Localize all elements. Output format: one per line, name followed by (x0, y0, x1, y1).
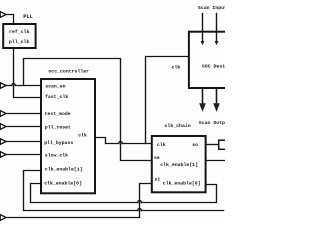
SOC Design box (cut at right edge) (189, 32, 227, 88)
arrowhead scan input 2 (215, 41, 219, 45)
wire scan_en (with hop bump over pll_clk line) (6, 85, 41, 87)
input arrow si (bottom-left) (0, 215, 6, 221)
wire clk output of occ_controller (step down, hop bump over scan branch) (96, 138, 152, 144)
wire ref_clk into PLL (6, 15, 14, 24)
wire so output (206, 144, 219, 146)
wire test_mode (6, 113, 41, 115)
wire pll_bypass (6, 141, 41, 143)
arrowhead scan input 1 (201, 41, 205, 45)
svg-text:si: si (155, 177, 161, 183)
wire Scan Output 1 (202, 89, 204, 105)
wire pll_clk (PLL bottom to fast_clk input, hops scan_en wire) (14, 49, 41, 98)
svg-text:clk: clk (78, 133, 87, 139)
input arrow pll_reset (0, 124, 6, 130)
wire clk_enable[0] from occ down, across, up to clk_chain (31, 184, 217, 203)
clk_chain box (152, 136, 206, 192)
svg-text:scan_en: scan_en (45, 85, 65, 90)
svg-text:clk_chain: clk_chain (165, 123, 191, 129)
occ_controller box (41, 79, 95, 193)
svg-text:clk_enable[1]: clk_enable[1] (45, 167, 83, 173)
input arrow slow_clk (0, 152, 6, 158)
svg-text:fast_clk: fast_clk (45, 94, 68, 100)
svg-text:pll_clk: pll_clk (9, 39, 29, 45)
hop bump on scan_en over pll_clk (12, 83, 16, 85)
wire si from bottom arrow up into clk_chain (6, 184, 152, 218)
arrowhead scan output 2 (213, 103, 220, 112)
svg-text:pll_reset: pll_reset (45, 124, 71, 130)
svg-text:clk_enable[1]: clk_enable[1] (160, 162, 198, 168)
wire scan_en branch to se (up, across top, down, into clk_chain) (24, 59, 152, 161)
input arrow test_mode (0, 111, 6, 117)
svg-text:clk: clk (157, 142, 166, 148)
input arrow pll_bypass (0, 139, 6, 145)
svg-text:clk_enable[0]: clk_enable[0] (163, 181, 201, 187)
hop bump on clk wire over scan branch vertical (119, 141, 123, 143)
input arrow ref_clk (top-left) (0, 12, 6, 18)
wire clk up to SOC Design (146, 57, 189, 144)
wire Scan Output 2 (216, 89, 218, 105)
svg-text:Scan Input: Scan Input (198, 5, 225, 11)
arrowhead scan output 1 (199, 103, 206, 112)
svg-text:slow_clk: slow_clk (45, 152, 68, 158)
wire pll_reset (6, 126, 41, 128)
scan-out flop box (cut at right edge) (219, 140, 227, 149)
wire clk_enable[1] from occ to bottom bus (24, 171, 224, 211)
hop bump on clk_enable[0] bus over si vertical (138, 200, 142, 202)
PLL box (3, 24, 35, 48)
wire Scan Input 1 (202, 14, 204, 43)
svg-text:PLL: PLL (23, 14, 33, 20)
wire Scan Input 2 (216, 14, 218, 43)
wire slow_clk (6, 154, 41, 156)
hop bump on clk_enable[1] bus over si vertical (138, 208, 142, 210)
svg-text:Scan Output: Scan Output (199, 120, 225, 126)
svg-text:ref_clk: ref_clk (9, 29, 29, 35)
svg-text:pll_bypass: pll_bypass (44, 140, 73, 146)
svg-text:clk: clk (172, 65, 181, 71)
svg-text:occ_controller: occ_controller (48, 69, 89, 75)
svg-text:SOC Design: SOC Design (202, 63, 225, 69)
svg-text:test_mode: test_mode (45, 111, 71, 117)
svg-text:clk_enable[0]: clk_enable[0] (44, 180, 82, 186)
svg-text:se: se (154, 156, 160, 161)
svg-text:so: so (192, 143, 198, 148)
input arrow scan_en (0, 83, 6, 89)
wire clk_enable[1] output of clk_chain (off right edge) (206, 160, 225, 162)
